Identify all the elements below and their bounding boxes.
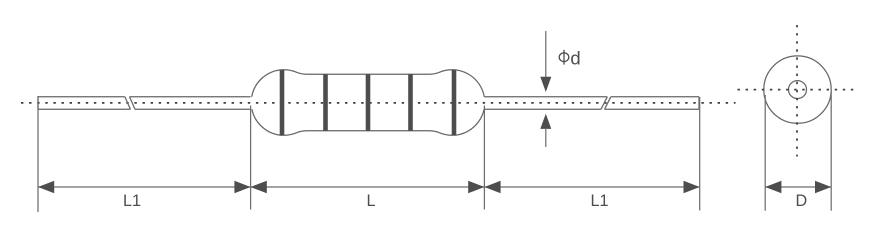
svg-text:L: L (366, 192, 375, 210)
arrow L-left outward (251, 181, 267, 194)
color band 2 (323, 74, 328, 131)
label phi-d : phi symbol (559, 50, 569, 65)
svg-text:L1: L1 (590, 192, 608, 210)
arrow D-right outward (815, 181, 831, 194)
end view vertical centerline (796, 25, 798, 157)
extension line D right (x=831.3) (830, 91, 832, 211)
break mark right (diagonals) (601, 97, 611, 110)
arrow L1-right outward (234, 181, 250, 194)
dimension line L (251, 186, 485, 188)
dimension line D (765, 186, 831, 188)
break mark left (diagonals) (125, 97, 135, 110)
end view horizontal centerline (738, 89, 859, 91)
phi-d dimension upper line (545, 31, 547, 78)
svg-text:L1: L1 (123, 192, 141, 210)
extension line D left (x=765.3) (764, 95, 766, 211)
color band 4 (408, 74, 413, 131)
dimension line L1 right (484, 186, 699, 188)
arrow D-left outward (765, 181, 781, 194)
lead wire right segment 2 (605, 97, 700, 110)
lead wire right segment 1 (484, 97, 607, 110)
end view inner circle (lead) (789, 81, 807, 99)
arrow L1r-left outward (484, 181, 500, 194)
phi-d lower arrow (up) (540, 114, 551, 129)
extension line left (x=38) (37, 96, 39, 212)
lead wire left segment 2 (130, 97, 251, 110)
color band 1 (280, 70, 285, 135)
resistor body outline (252, 70, 485, 136)
extension line right (x=699.7) (699, 97, 701, 211)
svg-text:d: d (570, 48, 580, 69)
arrow L1-left outward (38, 181, 54, 194)
dimension line L1 left (38, 186, 251, 188)
extension line L/L1 (x=484.4) (483, 106, 485, 210)
arrow L-right outward (468, 181, 484, 194)
end view outer circle (764, 56, 831, 123)
main centerline (21, 102, 736, 104)
phi-d upper arrow (down) (540, 77, 551, 92)
arrow L1r-right outward (684, 181, 700, 194)
phi-d dimension lower line (545, 128, 547, 147)
color band 5 (452, 70, 457, 135)
color band 3 (366, 74, 371, 131)
svg-text:D: D (795, 192, 807, 210)
lead wire left segment 1 (38, 97, 130, 110)
extension line L1/L (x=250.6) (250, 106, 252, 210)
